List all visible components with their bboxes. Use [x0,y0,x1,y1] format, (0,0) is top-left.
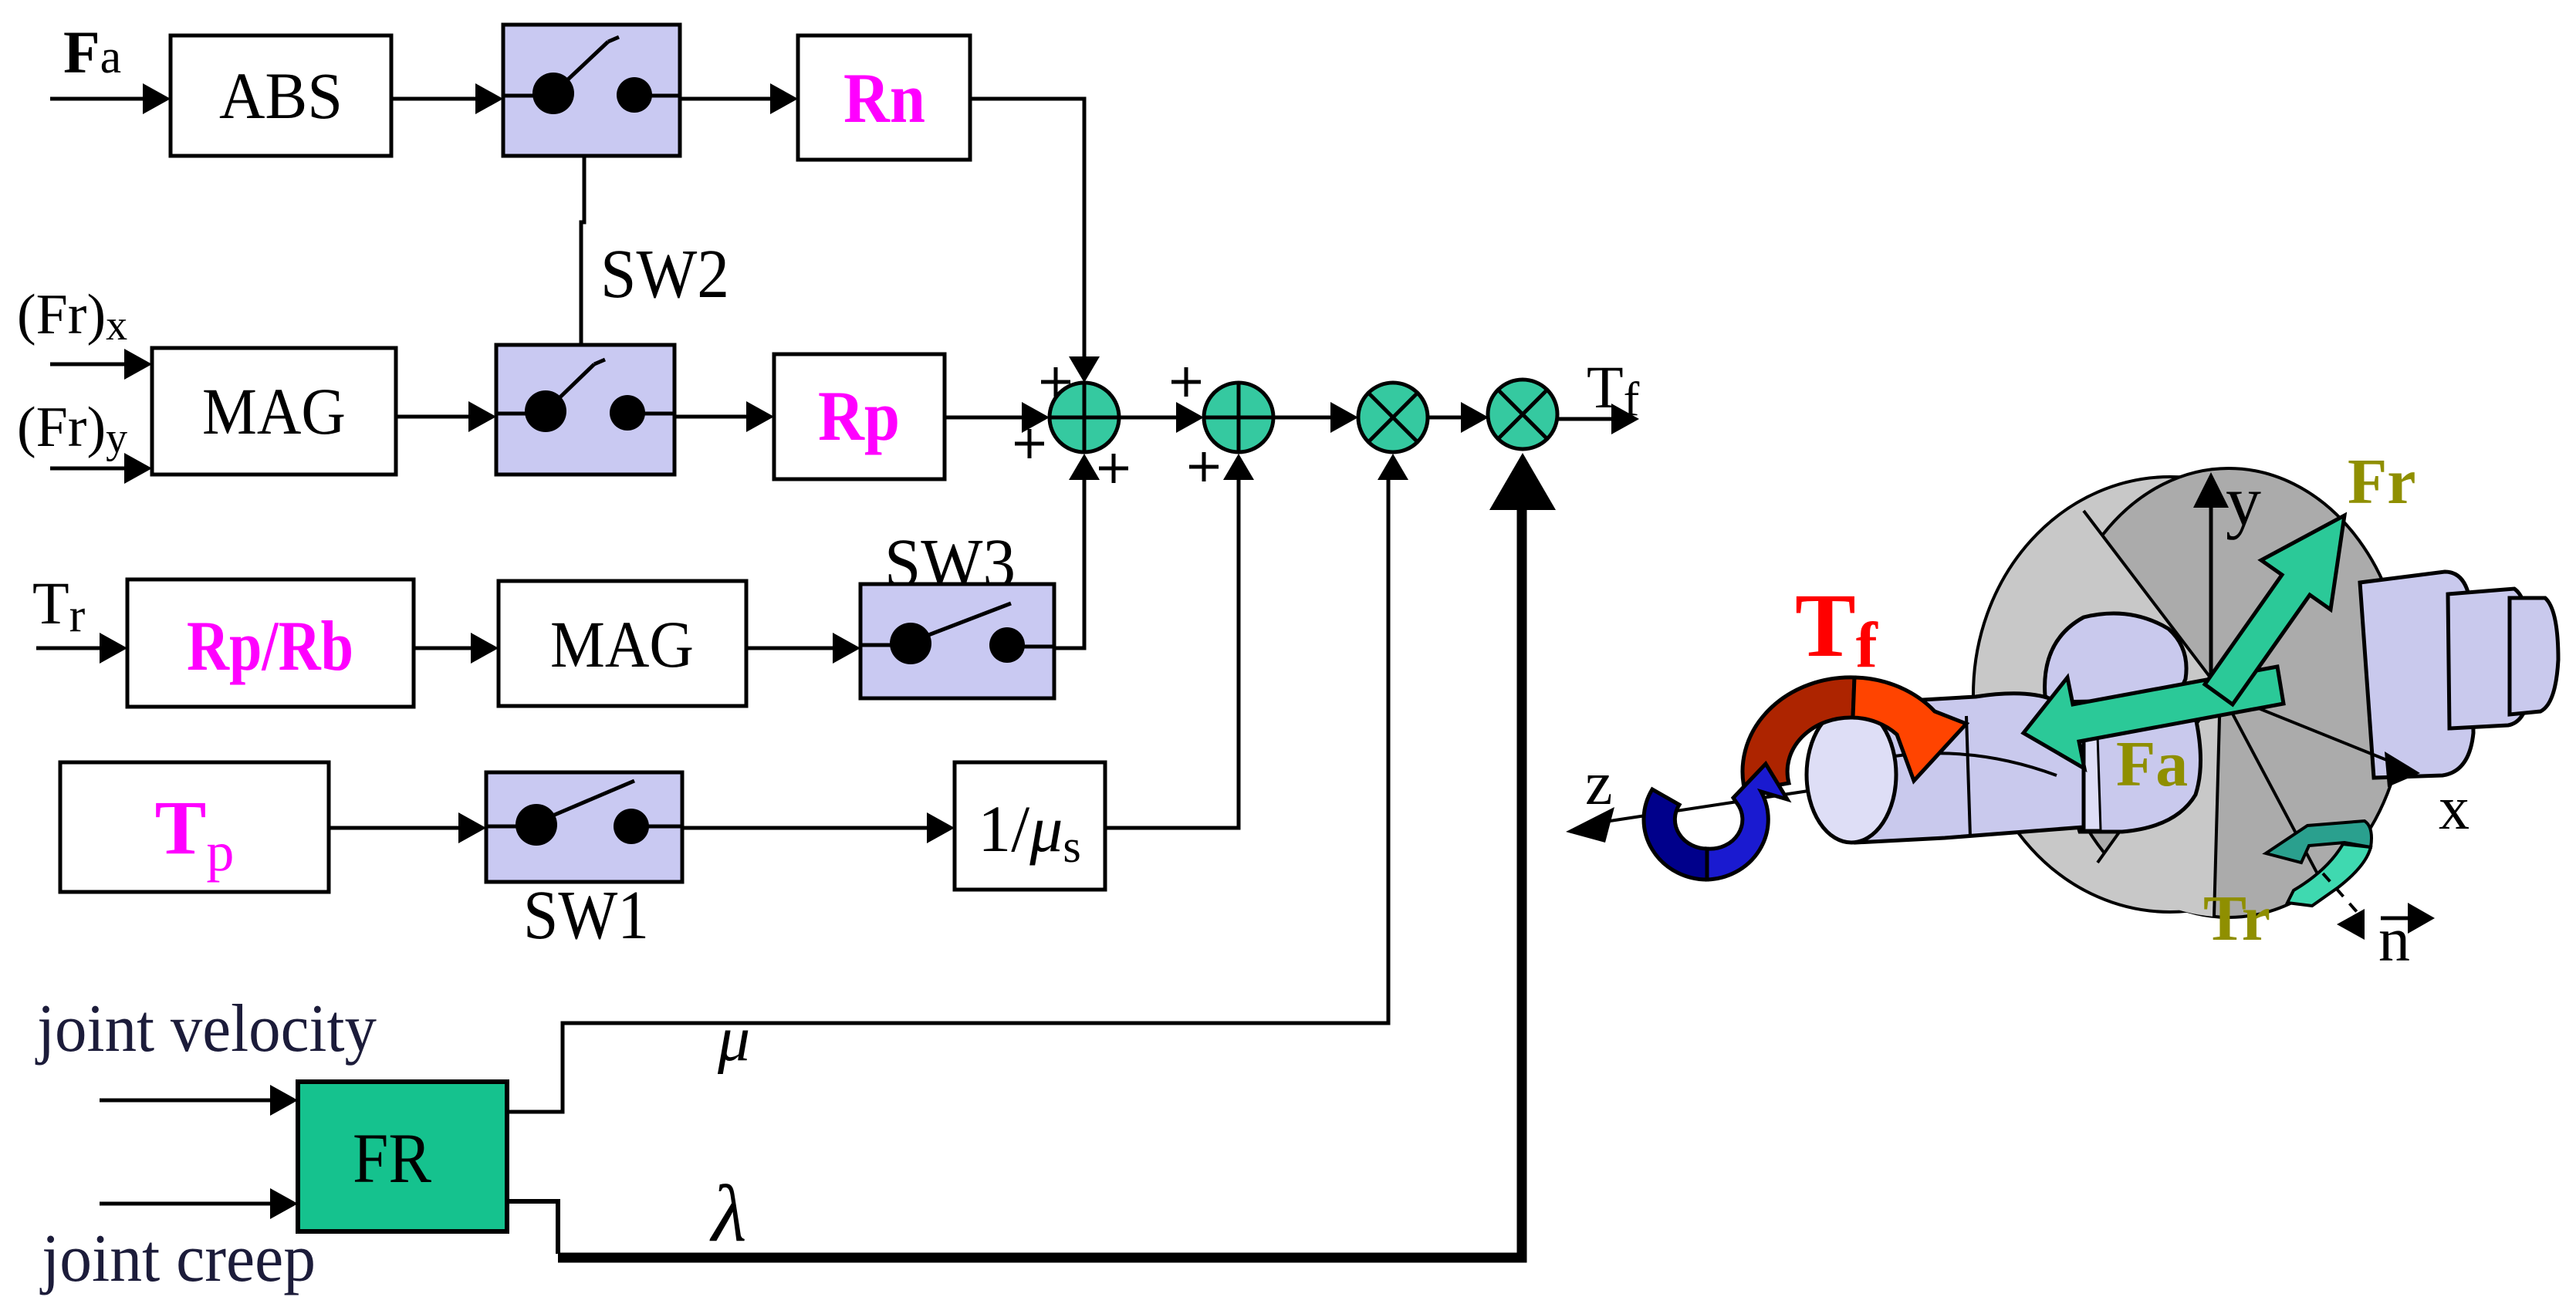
switch SW2 lower [496,345,674,475]
switch SW1 [486,772,682,882]
svg-text:Tr: Tr [2203,883,2270,954]
x axis line [2220,693,2396,764]
svg-text:n: n [2378,904,2410,974]
svg-text:Fr: Fr [2348,446,2416,518]
svg-text:MAG: MAG [550,607,694,681]
svg-text:y: y [2226,461,2261,540]
wire sum2 to mult1 [1273,402,1358,433]
summing junction sum2 [1204,383,1273,452]
wire Fa to ABS [50,83,171,114]
wire Rp to sum1 [945,402,1050,433]
multiplier mult2 [1488,380,1557,449]
wire SW2b to Rp [674,401,774,432]
disc radial line lower-left [2098,691,2220,863]
svg-text:λ: λ [709,1168,746,1258]
right shaft middle step [2448,589,2529,728]
n axis dashed line [2323,873,2358,914]
node n vector label [2378,903,2435,974]
multiplier mult1 [1358,383,1428,452]
wire FR mu output to mult1 bottom [507,454,1408,1112]
shaft internal edge [1966,716,1970,836]
wire Tf output [1557,404,1639,434]
node sum1 plus bottom-right [1099,454,1128,483]
wire SW2 control vertical [581,156,584,363]
wire Tr to RpRb [36,633,127,664]
wire mult1 to mult2 [1428,402,1489,433]
z axis line [1590,756,2037,824]
node sum1 plus top [1041,367,1070,397]
3D illustration group [1566,446,2558,974]
svg-text:Rn: Rn [843,59,925,137]
block Tp [60,762,329,892]
svg-text:Fa: Fa [2116,728,2188,800]
summing junction sum1 [1050,383,1119,452]
svg-text:joint creep: joint creep [39,1221,316,1296]
svg-text:Rp/Rb: Rp/Rb [187,606,353,685]
x axis arrowhead [2385,752,2420,787]
wire sum1 to sum2 [1119,402,1204,433]
block ABS [171,35,391,156]
Tr teal ribbon upper limb [2266,821,2371,863]
wire (Fr)x to MAG [50,349,152,380]
Fr arrow [2205,515,2344,704]
hub lower lobe [2065,718,2201,832]
wire SW3 to sum1 bottom [1054,454,1100,648]
switch SW3 [860,584,1054,698]
svg-text:μ: μ [717,1003,750,1075]
disc radial line down [2214,691,2220,917]
block MAG2 [499,581,746,706]
blue rotation arc bright limb with arrowhead [1707,764,1787,880]
wire MAG to SW2b [396,401,496,432]
block Rp/Rb [127,579,414,707]
hub lower light strip [2067,735,2101,830]
Tf red arc bright limb with arrowhead [1853,677,1966,781]
block FR [298,1082,507,1231]
svg-text:MAG: MAG [202,374,346,448]
wire Rn to sum1 top [970,99,1100,383]
shaft main body [1856,694,2084,843]
right shaft end cap [2510,598,2558,714]
wire ABS to SW2a [391,83,503,114]
wire SW1 to 1/mus [682,812,955,843]
shaft cylinder boundary [1895,753,2057,775]
wire Tp to SW1 [329,812,486,843]
z axis arrowhead [1566,807,1614,843]
node sum2 plus top [1171,367,1201,397]
disc rim (light gray) [1973,477,2367,912]
hub upper lobe [2045,613,2186,702]
block 1/mus [955,762,1105,890]
Tf red arc dark limb [1743,677,1854,791]
wire SW2a to Rn [680,83,798,114]
wire 1/mus to sum2 bottom [1105,454,1254,828]
svg-text:Rp: Rp [818,377,900,455]
Tr teal ribbon lower tail [2287,844,2371,906]
disc light upper-left sector [2006,509,2220,698]
n axis arrowhead [2337,909,2365,940]
Fa arrow [2023,667,2284,768]
disc radial line down-right [2220,691,2321,881]
wire joint creep to FR [100,1188,298,1219]
disc light lower-left sector [2098,691,2220,917]
block Rp [774,354,945,479]
block MAG [152,348,396,475]
right shaft big cylinder [2360,572,2473,778]
svg-text:SW2: SW2 [600,236,729,312]
y axis line [2209,494,2213,693]
y axis arrowhead [2193,472,2229,508]
svg-text:FR: FR [353,1119,432,1197]
block Rn [798,35,970,160]
blue rotation arc dark limb [1644,789,1707,880]
svg-text:z: z [1585,750,1613,818]
wire RpRb to MAG2 [414,633,499,664]
wire MAG2 to SW3 [746,633,860,664]
switch SW2 upper [503,25,680,156]
svg-text:ABS: ABS [219,59,343,133]
wire (Fr)y to MAG [50,453,152,484]
node sum1 plus left-bottom [1015,429,1044,458]
disc front face [2051,468,2406,917]
wire FR lambda output to mult2 bottom (thick) [507,453,1556,1258]
svg-text:x: x [2439,775,2470,843]
shaft left end face [1807,707,1896,843]
node sum2 plus bottom [1189,452,1219,481]
svg-text:joint velocity: joint velocity [35,991,377,1066]
wire joint velocity to FR [100,1085,298,1116]
disc radial line upper-left [2084,511,2220,691]
svg-text:SW1: SW1 [523,877,649,954]
